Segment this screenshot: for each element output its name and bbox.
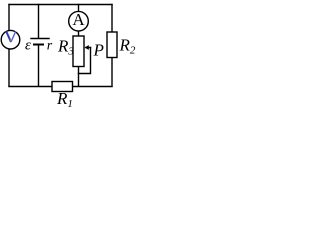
svg-text:R2: R2 <box>119 36 136 57</box>
svg-text:A: A <box>72 10 85 29</box>
svg-text:r: r <box>47 38 53 53</box>
svg-text:P: P <box>93 41 104 60</box>
svg-text:ε: ε <box>25 38 31 54</box>
svg-text:R3: R3 <box>57 37 74 58</box>
